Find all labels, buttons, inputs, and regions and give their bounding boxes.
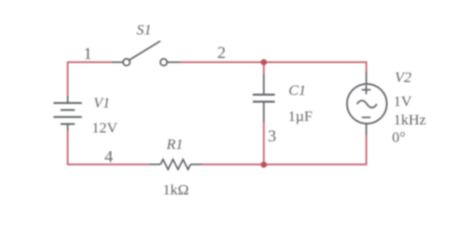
- svg-text:3: 3: [268, 127, 277, 146]
- svg-text:1µF: 1µF: [288, 109, 313, 125]
- svg-text:S1: S1: [137, 23, 152, 39]
- svg-text:1V: 1V: [394, 94, 413, 110]
- svg-text:4: 4: [105, 147, 114, 166]
- svg-text:1kΩ: 1kΩ: [163, 182, 189, 198]
- svg-text:V1: V1: [94, 95, 111, 111]
- svg-text:0°: 0°: [392, 130, 406, 146]
- svg-text:1: 1: [84, 44, 93, 63]
- svg-text:C1: C1: [289, 83, 307, 99]
- svg-text:1kHz: 1kHz: [394, 112, 427, 128]
- svg-text:R1: R1: [166, 137, 184, 153]
- svg-text:V2: V2: [395, 70, 412, 86]
- svg-text:12V: 12V: [92, 120, 118, 136]
- svg-text:2: 2: [217, 43, 226, 62]
